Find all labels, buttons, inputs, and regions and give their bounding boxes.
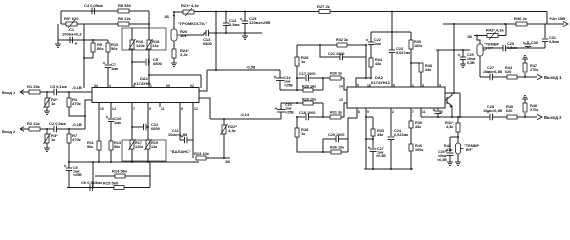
svg-text:×25В: ×25В bbox=[73, 173, 82, 177]
ground below C1 loop bbox=[57, 40, 59, 44]
capacitor C27 1мк×6,3В (electrolytic) bbox=[370, 148, 377, 150]
wire C7 to IC1 pin bbox=[107, 68, 109, 89]
wire x366 down to IC2 pin5 row bbox=[365, 45, 367, 78]
wire pin10 chain down bbox=[98, 107, 100, 141]
control box A outline bbox=[122, 28, 166, 50]
svg-text:11: 11 bbox=[161, 107, 165, 111]
resistor R13 56к bbox=[109, 141, 113, 150]
input 1 arrow bbox=[20, 90, 24, 95]
wire pin7 down to R17 bbox=[131, 107, 133, 140]
svg-text:×6,3В: ×6,3В bbox=[376, 154, 386, 158]
wire pin8 jog to feedback loop bbox=[348, 109, 357, 153]
wire R4 bottom to x85 bbox=[69, 107, 85, 116]
svg-text:3: 3 bbox=[96, 84, 98, 88]
capacitor C10 1мк×6,3В (electrolytic) bbox=[108, 118, 114, 120]
svg-text:"БАЛАНС": "БАЛАНС" bbox=[170, 149, 191, 154]
svg-text:C30: C30 bbox=[531, 41, 538, 45]
svg-text:1мк: 1мк bbox=[374, 42, 381, 46]
wire C18 row to junction bbox=[309, 116, 331, 118]
svg-text:13: 13 bbox=[339, 98, 343, 102]
resistor R30 3к bbox=[330, 76, 341, 80]
capacitor C29 0,5мк bbox=[502, 45, 504, 51]
resistor R4 470к bbox=[68, 92, 70, 98]
svg-text:C3 0,1мк: C3 0,1мк bbox=[50, 84, 67, 89]
wire R10 to C7 bbox=[107, 52, 109, 64]
svg-text:R26 10к: R26 10к bbox=[302, 85, 316, 89]
svg-text:11: 11 bbox=[422, 110, 426, 114]
svg-text:10мк×6,3В: 10мк×6,3В bbox=[483, 70, 502, 74]
wire x216 rail drop to -0,58 line bbox=[215, 12, 217, 71]
capacitor C3 0,1мк bbox=[53, 89, 55, 95]
capacitor C34 electrolytic at pin12 bbox=[435, 110, 442, 112]
svg-text:C17 1000: C17 1000 bbox=[299, 72, 315, 76]
svg-text:C20 1000: C20 1000 bbox=[328, 133, 344, 137]
wire C27 to R44 bbox=[493, 76, 508, 78]
input 2 arrow bbox=[20, 127, 24, 132]
wire R18 bottom down bbox=[148, 49, 150, 88]
wire R9 bottom to node x84 bbox=[84, 52, 93, 58]
junction rail x93 bbox=[92, 161, 94, 163]
wire R30 to IC2 pin 14 bbox=[341, 78, 347, 90]
vertical x93 rail to bottom bbox=[92, 162, 94, 188]
svg-text:43к: 43к bbox=[446, 148, 452, 152]
capacitor C15 1мк×25В (series electrolytic) bbox=[280, 112, 282, 119]
output2 wire bbox=[452, 116, 490, 118]
wire tap down to pot bbox=[477, 36, 480, 45]
ground at bypass node bbox=[244, 33, 246, 36]
capacitor C16 1мк×25В (series electrolytic) bbox=[279, 70, 281, 78]
trimmer R2* 1к bbox=[46, 92, 48, 98]
junction tone tap 1Б bbox=[476, 35, 478, 37]
wire R16 bottom down bbox=[131, 49, 133, 88]
junction at R4 tap bbox=[68, 91, 70, 93]
junction x84 y58 bbox=[83, 57, 85, 59]
wire C30 link to C31 node bbox=[527, 47, 529, 49]
svg-text:Выход 2: Выход 2 bbox=[544, 115, 562, 120]
svg-text:6800: 6800 bbox=[153, 61, 163, 66]
wire -0,13 horizontal bbox=[210, 118, 281, 120]
resistor R33 43к bbox=[371, 129, 375, 136]
junction rail x392 bbox=[391, 11, 393, 13]
variable resistor R18 12к bbox=[147, 40, 151, 49]
svg-text:56к: 56к bbox=[114, 145, 120, 149]
svg-text:R8 560: R8 560 bbox=[118, 3, 132, 8]
svg-text:2,2к: 2,2к bbox=[180, 52, 188, 57]
wire branch to R33 bbox=[366, 116, 373, 118]
svg-text:R1 33к: R1 33к bbox=[27, 84, 40, 89]
wire riser input2 to IC pin bbox=[85, 100, 92, 129]
trimmer R3* 1к bbox=[46, 129, 48, 134]
potentiometer ГРОМКОСТЬ R20 10к bbox=[171, 29, 177, 41]
capacitor C28 10мк×6,3В (series electrolytic) bbox=[489, 114, 491, 120]
junction at R3 tap bbox=[46, 128, 48, 130]
svg-text:×25В: ×25В bbox=[284, 83, 293, 87]
svg-text:6: 6 bbox=[393, 84, 395, 88]
wire vertical join x61 bbox=[60, 11, 62, 24]
svg-text:1мк: 1мк bbox=[114, 120, 121, 125]
wire pot to ground bbox=[457, 154, 459, 162]
svg-text:ВЧ": ВЧ" bbox=[466, 148, 473, 152]
junction x245 on wiper wire bbox=[244, 32, 246, 34]
svg-text:100мк×6,3: 100мк×6,3 bbox=[62, 32, 82, 37]
svg-text:R27 2к: R27 2к bbox=[317, 4, 330, 9]
capacitor C27 10мк×6,3В (series electrolytic) bbox=[489, 74, 491, 80]
svg-text:-0,1В: -0,1В bbox=[72, 122, 82, 127]
capacitor C12 6800 bbox=[132, 126, 143, 128]
resistor R14 56к bbox=[115, 174, 125, 178]
capacitor C22 1мк×25В (electrolytic) bbox=[370, 32, 372, 42]
capacitor C6 0,015мк bbox=[89, 184, 91, 190]
svg-text:470к: 470к bbox=[72, 137, 81, 142]
resistor R11 56к bbox=[97, 141, 101, 150]
svg-text:270к: 270к bbox=[530, 68, 538, 72]
wire pot bottom to output line bbox=[479, 56, 481, 77]
junction x323 top pair bbox=[322, 77, 324, 79]
svg-text:R46 2к: R46 2к bbox=[514, 16, 527, 21]
wire R40 to ground rail bbox=[410, 151, 412, 169]
svg-text:12к: 12к bbox=[151, 145, 157, 149]
capacitor C7 1мк×25В (electrolytic) bbox=[105, 64, 111, 66]
svg-text:7: 7 bbox=[133, 107, 135, 111]
svg-text:К174УН12: К174УН12 bbox=[371, 80, 391, 85]
svg-text:4,3к: 4,3к bbox=[446, 125, 453, 129]
svg-text:1к: 1к bbox=[301, 131, 305, 136]
resistor R5* 620 (variable) bbox=[66, 22, 77, 26]
svg-text:6,3В: 6,3В bbox=[467, 61, 475, 65]
wire input2 to C1 bbox=[40, 128, 54, 130]
svg-text:120к: 120к bbox=[135, 145, 143, 149]
svg-text:1Б: 1Б bbox=[467, 34, 472, 39]
svg-text:1мк: 1мк bbox=[111, 66, 118, 71]
wire top-left rail upper bbox=[61, 10, 149, 12]
wire y32 tone bus bbox=[371, 31, 411, 33]
svg-text:12к: 12к bbox=[152, 43, 158, 48]
wire rail drop x392 bbox=[391, 12, 393, 33]
IC1 bottom pin stubs and numbers bbox=[98, 103, 100, 108]
resistor R15 560 bbox=[114, 186, 124, 190]
svg-text:43к: 43к bbox=[425, 68, 431, 72]
ground above R48 bbox=[524, 99, 526, 103]
resistor R47 270к (shunt) bbox=[524, 73, 526, 77]
parallel resistor R29 10к bbox=[297, 102, 303, 104]
IC1 top pin stubs and numbers bbox=[94, 85, 96, 88]
wire pin6 down (balance) bbox=[179, 107, 181, 140]
capacitor C9 6800 bbox=[132, 61, 145, 63]
wire R28 bottom loop bbox=[297, 137, 348, 152]
svg-text:10: 10 bbox=[100, 107, 104, 111]
supply output arrow +Uп 15В bbox=[547, 23, 564, 25]
svg-text:2: 2 bbox=[192, 84, 194, 88]
supply rail lower right bbox=[443, 23, 547, 25]
svg-text:4: 4 bbox=[439, 84, 441, 88]
wire R31 to IC2 pin 13 bbox=[341, 103, 347, 117]
wire R7 bottom to ground rail bbox=[68, 143, 70, 162]
wire C13 to bypass node bbox=[209, 32, 263, 34]
capacitor C4 0,05мк bbox=[91, 8, 93, 14]
output 2 arrow and label bbox=[525, 116, 537, 118]
wire pin5 down to R19 bbox=[147, 107, 149, 140]
junction y32 x392 bbox=[391, 31, 393, 33]
loop with C21 1000 bbox=[320, 45, 340, 57]
resistor R27 2к bbox=[319, 10, 330, 14]
capacitor C30 120мк (electrolytic) bbox=[527, 41, 529, 44]
wire C5 to bottom rail bbox=[68, 171, 70, 188]
svg-text:R31 3к: R31 3к bbox=[330, 111, 342, 115]
wire pin12 down (balance) bbox=[192, 107, 194, 140]
wire -0,58 horizontal bbox=[207, 69, 280, 71]
wire node x84 down to IC1 bbox=[83, 40, 85, 88]
wire pin7 chain bbox=[410, 109, 412, 122]
wire x460 collector drop bbox=[459, 93, 461, 117]
wire C16 to node column bbox=[279, 81, 281, 91]
svg-text:×25В: ×25В bbox=[285, 110, 294, 114]
svg-text:Вход 1: Вход 1 bbox=[2, 90, 16, 95]
wire R17 bottom to rail bbox=[131, 149, 133, 162]
wire C10 to R13 bbox=[110, 122, 112, 142]
resistor R24 2,2к bbox=[173, 41, 175, 49]
junction node x149 on lower rail bbox=[148, 23, 150, 25]
junction x216 on wiper wire bbox=[215, 32, 217, 34]
wire x149 from rails into box bbox=[148, 11, 150, 40]
ground below R3* bbox=[44, 147, 50, 149]
svg-text:8: 8 bbox=[358, 110, 360, 114]
svg-text:43к: 43к bbox=[375, 62, 381, 66]
wire R11 R13 bottoms to rail bbox=[98, 150, 100, 162]
svg-text:1Б: 1Б bbox=[164, 14, 169, 19]
svg-text:1: 1 bbox=[150, 84, 152, 88]
capacitor C17 1000 (series) bbox=[297, 77, 305, 79]
feedback loop C20 1000 parallel R36 10к bbox=[323, 139, 336, 152]
ground rail under IC1 bbox=[69, 161, 199, 163]
svg-text:0,5мк: 0,5мк bbox=[549, 40, 559, 44]
wire y75 feedback row to IC1 bbox=[149, 74, 201, 76]
op-amp DA1 К174УН2 box bbox=[92, 88, 199, 103]
svg-text:270к: 270к bbox=[530, 108, 538, 112]
capacitor C14 0,5мк (rail bypass) bbox=[225, 12, 227, 24]
control box B outline bbox=[122, 140, 166, 161]
svg-text:9: 9 bbox=[367, 110, 369, 114]
svg-text:5: 5 bbox=[357, 84, 359, 88]
resistor R38 43к bbox=[411, 62, 421, 64]
junction rail x216 bbox=[215, 11, 217, 13]
wire R33 to C27 bbox=[372, 136, 374, 148]
svg-text:5: 5 bbox=[149, 107, 151, 111]
capacitor C5 1мк×25В (electrolytic) bbox=[68, 162, 70, 168]
svg-text:56к: 56к bbox=[111, 46, 117, 51]
svg-text:0,047мк: 0,047мк bbox=[396, 51, 410, 55]
wire C22 to R34 bbox=[370, 45, 372, 59]
wire C15 to node column bbox=[280, 103, 282, 110]
wire volume wiper to C13 bbox=[180, 34, 204, 36]
svg-text:R5* 620: R5* 620 bbox=[64, 16, 79, 21]
resistor R39 43к bbox=[409, 121, 413, 128]
capacitor C26a 10мк×6,3В (wiper branch) bbox=[450, 136, 458, 138]
ground below C25 bbox=[462, 60, 464, 65]
svg-text:-0,58: -0,58 bbox=[246, 65, 256, 70]
svg-text:6800: 6800 bbox=[151, 126, 161, 131]
wire pin2 chain bbox=[390, 109, 392, 137]
capacitor C23 0,047мк bbox=[391, 32, 393, 50]
capacitor C11 10мк×6,3В (electrolytic) bbox=[180, 139, 184, 141]
svg-text:R21* 4,3к: R21* 4,3к bbox=[181, 3, 199, 8]
svg-text:4,3к: 4,3к bbox=[228, 128, 236, 133]
svg-text:R2 22к: R2 22к bbox=[27, 121, 40, 126]
capacitor C2 0,5мк bbox=[53, 126, 55, 132]
resistor R25 1к bbox=[296, 45, 298, 57]
wire C23 to IC2 pin bbox=[391, 53, 393, 88]
junction at R2 tap bbox=[46, 91, 48, 93]
resistor R7 470к bbox=[68, 129, 70, 134]
junction R7 bottom bbox=[68, 161, 70, 163]
wire C27 to ground rail bbox=[372, 152, 374, 170]
wire IC1 left pin input1 bbox=[91, 91, 93, 93]
wire R45 to output node bbox=[517, 116, 525, 118]
wire pin11 to output line bbox=[420, 109, 422, 118]
wire C17 row to junction bbox=[309, 77, 331, 79]
svg-text:120к: 120к bbox=[136, 43, 145, 48]
wire R19 bottom to rail bbox=[147, 149, 149, 162]
junction at R7 tap bbox=[68, 128, 70, 130]
svg-text:C18 1000: C18 1000 bbox=[299, 111, 315, 115]
variable resistor R19 12к bbox=[146, 140, 150, 149]
variable resistor R17 120к bbox=[130, 140, 134, 149]
svg-text:R15 560: R15 560 bbox=[103, 181, 119, 186]
svg-text:10мк×6,3В: 10мк×6,3В bbox=[483, 109, 502, 113]
junction node B bottom channel bbox=[296, 102, 298, 104]
wire R41 to pot node bbox=[457, 132, 459, 143]
svg-text:R29 10к: R29 10к bbox=[302, 98, 316, 102]
svg-text:14: 14 bbox=[112, 107, 116, 111]
potentiometer ТЕМБР НЧ bbox=[477, 44, 483, 56]
parallel resistor R26 10к bbox=[297, 89, 303, 91]
op-amp DA2 К174УН12 box bbox=[347, 87, 445, 108]
bottom rail y186 bbox=[67, 187, 150, 189]
resistor R43* 4,3к (variable) bbox=[487, 34, 498, 38]
wire pin5 connection bbox=[356, 78, 371, 87]
wire C26a to ground bbox=[449, 156, 451, 163]
resistor R6 12к bbox=[118, 22, 129, 26]
junction x453 on +U rail bbox=[453, 23, 455, 25]
resistor R44 620 bbox=[507, 75, 517, 79]
junction pin9 branch bbox=[365, 116, 367, 118]
svg-text:0,5мк: 0,5мк bbox=[229, 22, 240, 27]
svg-text:1к: 1к bbox=[51, 137, 55, 142]
wire input1 to C3 bbox=[40, 91, 54, 93]
resistor R2 22к bbox=[29, 127, 40, 131]
svg-text:3: 3 bbox=[422, 84, 424, 88]
wire IC1 pin to -0,13 line bbox=[199, 98, 210, 119]
wire y50 bus bbox=[436, 49, 470, 51]
wire C34 to output line bbox=[437, 114, 439, 118]
svg-text:10мк×6,3В: 10мк×6,3В bbox=[168, 133, 187, 137]
svg-text:R23 10к: R23 10к bbox=[194, 151, 209, 156]
svg-text:1к: 1к bbox=[51, 101, 55, 106]
wire corner x201 down to IC1 bbox=[200, 75, 202, 88]
junction R4 net bbox=[84, 115, 86, 117]
wire pot wiper to C29 bbox=[483, 47, 503, 49]
resistor R21* 4,3к (variable) bbox=[174, 11, 183, 13]
svg-text:Вход 2: Вход 2 bbox=[2, 129, 16, 134]
ground below R2* bbox=[44, 110, 50, 112]
svg-text:Выход 1: Выход 1 bbox=[544, 75, 562, 80]
IC2 pin16 wire bbox=[445, 92, 460, 94]
svg-text:7: 7 bbox=[412, 110, 414, 114]
wire pin4 riser to y50 wire bbox=[437, 50, 439, 87]
wire pin12 down to R23 bbox=[192, 140, 194, 158]
svg-text:R36 10к: R36 10к bbox=[330, 146, 344, 150]
junction x366 y45 bbox=[365, 44, 367, 46]
svg-text:43к: 43к bbox=[377, 133, 383, 137]
svg-text:620: 620 bbox=[505, 70, 511, 74]
svg-text:12: 12 bbox=[194, 107, 198, 111]
wire pin14 to C10 bbox=[110, 107, 112, 118]
resistor R32 3к bbox=[337, 43, 347, 47]
svg-text:2: 2 bbox=[392, 110, 394, 114]
resistor R8 560 bbox=[118, 9, 129, 13]
wire pin9 to ground rail bbox=[365, 109, 367, 170]
wire IC1 pin to -0,58 line bbox=[199, 70, 207, 91]
junction net 1Б bottom bbox=[223, 157, 225, 159]
junction C12 right bbox=[147, 126, 149, 128]
junction node A top channel bbox=[296, 77, 298, 79]
resistor R10 56к bbox=[107, 40, 109, 43]
transistor VT1 emitter follower bbox=[446, 97, 448, 104]
svg-text:120мк×25В: 120мк×25В bbox=[249, 20, 270, 25]
wire mid row y175 bbox=[95, 175, 150, 177]
resistor R35 160к bbox=[410, 32, 412, 40]
wire y35 tone feed bbox=[474, 35, 506, 37]
capacitor C15 120мк×25В (rail bypass electrolytic) bbox=[244, 12, 246, 22]
wire R34 to pin row bbox=[370, 67, 372, 78]
svg-text:1Б: 1Б bbox=[225, 159, 230, 164]
capacitor C25 10мк×6,3В (electrolytic to ground) bbox=[462, 50, 464, 57]
output1 wire bbox=[480, 76, 490, 78]
potentiometer R42 43к ТЕМБР ВЧ bbox=[456, 143, 461, 154]
vertical x150 rail to bottom bbox=[149, 162, 151, 188]
resistor R31 3к bbox=[330, 115, 341, 119]
wire C24 to ground rail bbox=[390, 140, 392, 170]
svg-text:R32 3к: R32 3к bbox=[336, 38, 348, 42]
svg-text:56к: 56к bbox=[97, 46, 103, 51]
wire rail corner to +U rail bbox=[546, 12, 548, 25]
junction x505 on +U rail bbox=[504, 23, 506, 25]
wire pin12 chain bbox=[437, 109, 439, 111]
svg-text:0,022мк: 0,022мк bbox=[394, 133, 408, 137]
svg-text:1: 1 bbox=[412, 84, 414, 88]
capacitor C18 1000 (series) bbox=[297, 116, 305, 118]
svg-text:43к: 43к bbox=[415, 125, 421, 129]
svg-text:"ГРОМКОСТЬ": "ГРОМКОСТЬ" bbox=[178, 21, 207, 26]
ground rail below IC2 bbox=[364, 168, 413, 170]
resistor R34 43к bbox=[369, 58, 373, 67]
wire C29 to C30 bbox=[506, 47, 529, 49]
junction C12 left bbox=[131, 126, 133, 128]
resistor R41* 4,3к (to tone pot) bbox=[457, 117, 459, 123]
wire R44 to output node bbox=[517, 76, 525, 78]
svg-text:R6 12к: R6 12к bbox=[118, 16, 131, 21]
resistor R9 56к bbox=[92, 40, 94, 43]
svg-text:C4 0,05мк: C4 0,05мк bbox=[84, 3, 103, 8]
wire R39 to R40 bbox=[410, 128, 412, 144]
junction volume tap on rail bbox=[173, 11, 175, 13]
wire C2 to riser bbox=[57, 128, 86, 130]
svg-text:620: 620 bbox=[506, 109, 512, 113]
wire R24 bottom to ground bbox=[173, 58, 175, 63]
svg-text:R14 56к: R14 56к bbox=[112, 169, 127, 174]
wire R38 to pin3 bbox=[420, 72, 422, 87]
wire rail to volume pot bbox=[173, 12, 175, 29]
svg-text:6: 6 bbox=[181, 107, 183, 111]
